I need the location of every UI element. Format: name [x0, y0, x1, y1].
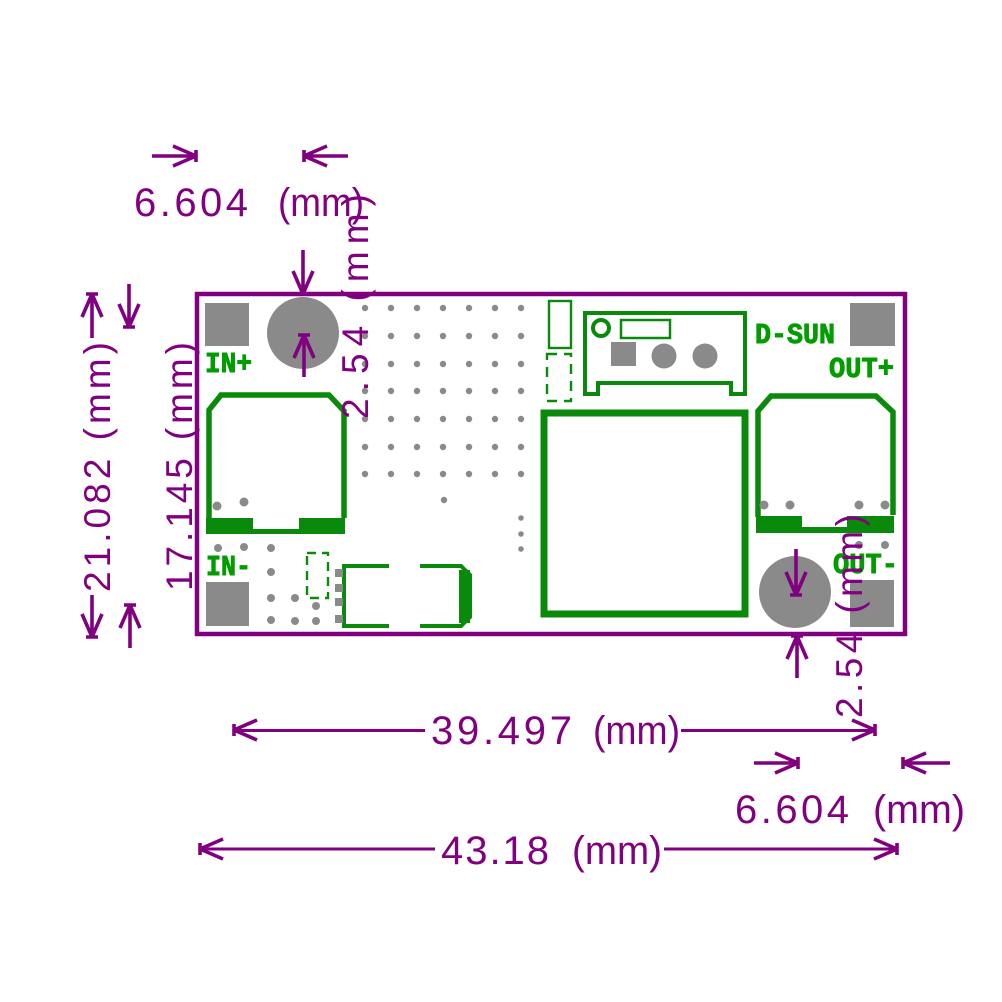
dim 2.54 bottom up arrow: [787, 636, 807, 678]
dim 21.082 bottom arrow: [82, 595, 102, 637]
dim 43.18 left arrow: [200, 839, 223, 859]
svg-text:2.54 (mm): 2.54 (mm): [335, 194, 376, 419]
resistor R3 (bottom, dashed outline): [307, 553, 328, 598]
svg-text:IN+: IN+: [205, 348, 252, 381]
inductor L1 footprint outline: [209, 395, 344, 518]
dim 6.604 top right arrow: [304, 146, 348, 166]
capacitor C2 output (gray circle): [759, 556, 831, 628]
pad OUT-: [850, 580, 894, 627]
potentiometer RV1 pad 1 (square): [611, 342, 636, 366]
pad OUT+: [850, 303, 895, 346]
resistor R1 (top, solid outline): [549, 301, 571, 348]
dim 43.18 line: [200, 848, 897, 851]
inductor L1 inner holes: [213, 502, 222, 511]
svg-text:OUT+: OUT+: [829, 353, 894, 386]
resistor R2 (dashed outline): [547, 354, 571, 401]
IC U1 footprint square: [544, 413, 745, 614]
dim 17.145 bottom arrow: [120, 605, 140, 648]
vias near C3: [855, 541, 863, 549]
extra vias: [441, 497, 447, 503]
potentiometer RV1 body rect: [621, 320, 670, 338]
dim 39.497 left arrow: [234, 720, 257, 740]
dim 21.082 top arrow: [82, 294, 102, 338]
dim 6.604 bottom left arrow: [754, 753, 798, 773]
pad IN+: [205, 303, 249, 346]
capacitor C3 bottom pads: [756, 516, 894, 533]
dim 2.54 top up arrow: [294, 335, 314, 377]
capacitor C1 input (gray circle): [267, 297, 339, 369]
capacitor C3 footprint outline: [758, 396, 893, 517]
potentiometer RV1 outline: [585, 313, 745, 394]
vias near IN-: [214, 544, 222, 552]
dim 6.604 bottom right arrow: [903, 753, 950, 773]
svg-text:(mm): (mm): [593, 709, 680, 753]
svg-text:17.145 (mm): 17.145 (mm): [159, 342, 200, 591]
svg-text:6.604: 6.604: [134, 181, 248, 225]
svg-text:IN-: IN-: [206, 551, 251, 584]
diode D1 left pads: [335, 569, 343, 577]
pad IN-: [206, 582, 249, 626]
svg-text:D-SUN: D-SUN: [755, 319, 835, 352]
dim 17.145 top arrow: [119, 284, 139, 327]
svg-text:(mm): (mm): [873, 788, 965, 832]
PCB board outline: [197, 294, 905, 634]
svg-text:43.18: 43.18: [441, 829, 549, 873]
capacitor C3 inner holes: [760, 501, 769, 510]
svg-text:6.604: 6.604: [735, 788, 849, 832]
diode D1 footprint: [344, 566, 470, 626]
dim 39.497 line: [234, 729, 875, 732]
potentiometer RV1 pad 2: [652, 344, 677, 369]
dim 39.497 right arrow: [852, 720, 875, 740]
inductor L1 bottom pads: [206, 518, 345, 534]
potentiometer RV1 adjust screw circle: [593, 320, 609, 336]
dim 2.54 bottom down arrow: [786, 549, 806, 595]
dim 2.54 top down arrow: [293, 250, 313, 294]
svg-text:(mm): (mm): [572, 829, 662, 873]
dim 43.18 right arrow: [874, 839, 897, 859]
thermal via grid: [362, 305, 368, 311]
dim 6.604 top left arrow: [152, 146, 196, 166]
svg-text:21.082 (mm): 21.082 (mm): [77, 342, 118, 592]
svg-text:39.497: 39.497: [431, 709, 572, 753]
potentiometer RV1 pad 3: [693, 344, 718, 369]
